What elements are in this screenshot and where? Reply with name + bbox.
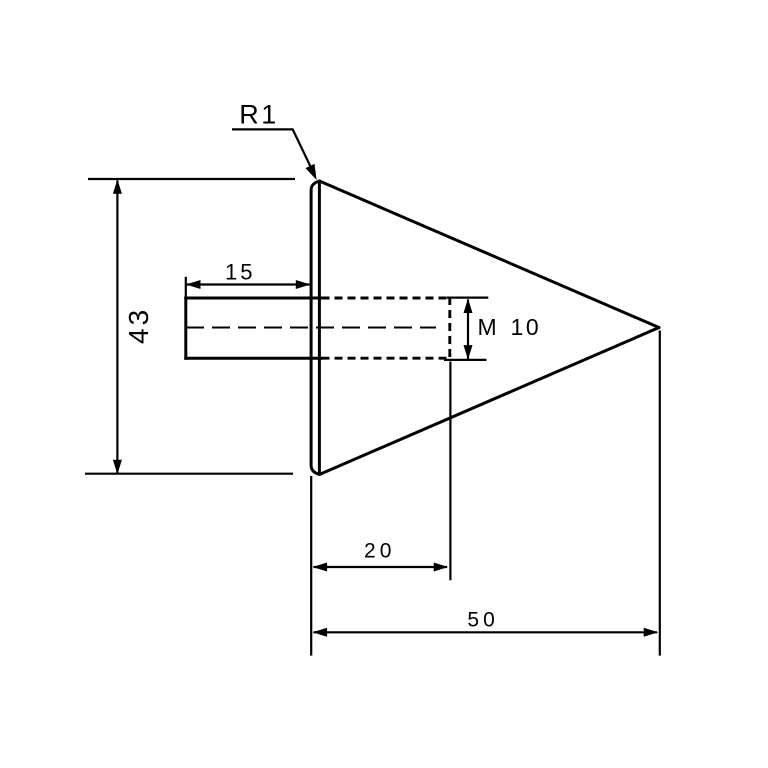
svg-text:50: 50 [467, 609, 498, 632]
arrow dim 43 top [113, 179, 122, 194]
extension line left for dims 20 and 50 [310, 476, 312, 656]
extension line top for dim M10 [447, 297, 489, 299]
dim text 15 [225, 260, 255, 285]
extension line left for dim 15 [185, 277, 187, 297]
arrow dim 15 right [296, 280, 311, 289]
hidden thread line top [322, 297, 449, 300]
extension line top for dim 43 [88, 178, 295, 180]
arrow dim 43 bottom [113, 460, 122, 475]
arrow dim M10 bottom [464, 345, 473, 360]
label text R1 [239, 99, 279, 129]
extension line bottom for dim 43 [85, 473, 293, 475]
arrow dim 50 left [313, 628, 328, 637]
cone top slant edge [319, 181, 659, 328]
dimension line 50 [314, 631, 658, 633]
extension line bottom for dim M10 [444, 359, 487, 361]
arrow dim M10 top [464, 299, 473, 314]
arrow dim 15 left [186, 280, 201, 289]
stud bottom edge [186, 357, 321, 360]
arrow dim 50 right [644, 628, 659, 637]
dimension line 20 [314, 566, 448, 568]
stud left end face [184, 298, 187, 358]
hidden thread line bottom [322, 357, 449, 360]
svg-text:43: 43 [123, 307, 154, 344]
cone bottom slant edge [319, 328, 659, 475]
dim text M10 [478, 314, 542, 340]
cone base face profile with R1 rounded corners [311, 181, 319, 475]
extension line right for dim 50 [659, 331, 661, 656]
dim text 50 [467, 609, 498, 632]
svg-text:15: 15 [225, 260, 255, 285]
dimension line M10 [467, 300, 469, 359]
arrow dim 20 right [434, 563, 449, 572]
dimension line 43 [116, 181, 118, 474]
stud top edge [186, 297, 321, 300]
hidden thread end line [448, 297, 451, 359]
centerline [186, 327, 436, 329]
dimension line 15 [187, 283, 310, 285]
svg-text:R1: R1 [239, 99, 279, 129]
dim text 43 [123, 307, 154, 344]
leader line R1 [232, 129, 314, 172]
svg-text:20: 20 [364, 540, 395, 563]
dim text 20 [364, 540, 395, 563]
extension line right for dim 20 [449, 362, 451, 581]
svg-text:M 10: M 10 [478, 314, 542, 340]
cone base circle edge line [318, 181, 321, 475]
arrow dim 20 left [313, 563, 328, 572]
leader arrow R1 [306, 164, 317, 180]
